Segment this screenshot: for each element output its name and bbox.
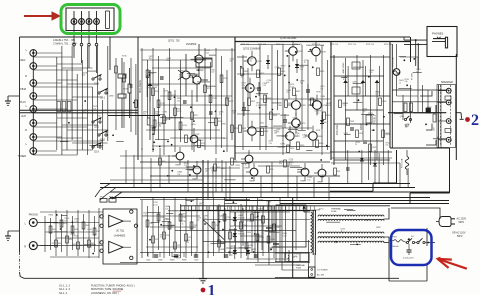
resistor amp 8	[311, 98, 319, 106]
resistor lowermid 17	[262, 216, 270, 223]
svg-text:100: 100	[241, 76, 244, 78]
svg-text:4.7k: 4.7k	[300, 69, 303, 71]
svg-text:Q728: Q728	[274, 67, 279, 69]
svg-text:100: 100	[363, 111, 366, 113]
svg-text:4.7k: 4.7k	[427, 109, 430, 111]
connector strip band	[180, 206, 390, 211]
svg-text:47μ: 47μ	[316, 113, 319, 115]
wire bus y202	[225, 200, 449, 202]
svg-text:R705: R705	[100, 197, 104, 199]
terminal lug 1	[445, 129, 451, 133]
wire amp horizontals	[235, 45, 330, 154]
capacitor amp 2	[306, 84, 310, 98]
resistor amp 14	[261, 128, 269, 136]
resistor tone 3	[163, 116, 171, 124]
resistor lowermid 5	[174, 242, 181, 249]
svg-text:2.2k: 2.2k	[206, 52, 209, 54]
svg-text:MONITOR ( TAPE.: MONITOR ( TAPE.	[91, 288, 112, 291]
switch S1-1	[98, 88, 108, 99]
wire left border dashdot	[19, 252, 21, 272]
svg-text:R66: R66	[86, 225, 89, 227]
wire bus y192	[110, 191, 449, 193]
capacitor tonecontrol 2	[356, 130, 364, 138]
svg-text:10k: 10k	[199, 205, 202, 207]
resistor lowermid 4	[168, 222, 175, 229]
svg-text:PC LFM: PC LFM	[412, 73, 414, 80]
fuse F601	[393, 237, 403, 249]
wire power step dark	[330, 150, 397, 191]
wire jack link 9	[33, 108, 67, 110]
svg-text:R831: R831	[242, 128, 246, 130]
svg-text:R65: R65	[80, 245, 83, 247]
wire speaker bus thick	[388, 112, 446, 114]
svg-text:C93: C93	[166, 235, 169, 237]
switch S2-3	[92, 142, 102, 153]
svg-text:R928: R928	[258, 200, 263, 202]
svg-text:R739 1.5k: R739 1.5k	[384, 44, 392, 46]
svg-text:1k: 1k	[168, 229, 170, 231]
jack input J3	[30, 80, 37, 87]
svg-text:C98: C98	[194, 225, 197, 227]
resistor lowermid 7	[185, 234, 192, 241]
transistor G807	[282, 126, 301, 146]
resistor lowermid 1	[152, 236, 159, 243]
svg-text:D607: D607	[252, 249, 257, 251]
resistor tone 9	[209, 95, 217, 103]
transistor Q709	[288, 95, 307, 116]
svg-text:R: R	[25, 129, 27, 132]
svg-text:4.7k: 4.7k	[219, 114, 222, 116]
wire jack link 14	[33, 140, 102, 142]
resistor amp 11	[239, 125, 247, 133]
svg-text:4.7k: 4.7k	[276, 131, 279, 133]
lamp PL802	[79, 11, 85, 31]
wire speaker dashed rails	[441, 85, 451, 146]
ic outline LA4648	[103, 209, 137, 264]
svg-text:R64: R64	[75, 229, 78, 231]
svg-text:C817: C817	[434, 127, 436, 131]
svg-text:47μ: 47μ	[64, 220, 67, 222]
subboard outline B	[276, 205, 306, 247]
svg-text:R718: R718	[207, 88, 211, 90]
resistor lowermid 11	[223, 214, 231, 221]
svg-text:2.2k: 2.2k	[247, 221, 250, 223]
resistor phono 2	[60, 220, 67, 227]
wire transformer tap wires	[304, 204, 389, 245]
wire midright verticals	[348, 150, 388, 184]
svg-text:R92: R92	[234, 161, 237, 163]
wire bus left jogs	[95, 184, 122, 201]
lamp PL803	[86, 11, 92, 31]
wire right border	[455, 54, 457, 160]
svg-text:C833: C833	[372, 147, 376, 149]
label thermal fuse	[319, 207, 342, 213]
transformer secondary winding 2	[318, 219, 384, 220]
annotation blue box	[391, 230, 432, 265]
svg-text:C665: C665	[395, 73, 400, 75]
switch S1-3	[92, 74, 102, 85]
ground input shield	[5, 96, 20, 105]
capacitor tonecontrol 3	[369, 144, 377, 152]
wire jack link 15	[33, 150, 57, 152]
resistor lowermid 15	[251, 214, 259, 221]
svg-text:2.2k: 2.2k	[263, 85, 266, 87]
svg-text:C911: C911	[227, 217, 231, 219]
wire jack link 4	[33, 69, 82, 71]
wire center diagonal	[204, 220, 225, 240]
wire jack link 5	[33, 82, 62, 84]
svg-text:1: 1	[208, 283, 216, 295]
svg-text:R62: R62	[64, 223, 67, 225]
transistor G806	[297, 163, 309, 183]
svg-text:R892: R892	[376, 227, 381, 229]
wire lamp lead lower 2	[81, 46, 83, 63]
legend text	[59, 284, 135, 295]
svg-text:R822: R822	[260, 73, 264, 75]
wire lamp lead 1	[73, 31, 75, 44]
svg-text:G808: G808	[317, 182, 323, 184]
svg-text:R911: R911	[221, 168, 225, 170]
svg-text:TUNER: TUNER	[18, 155, 27, 158]
legend underline	[113, 290, 122, 292]
svg-text:2SA950F: 2SA950F	[186, 43, 197, 46]
svg-text:0.022: 0.022	[289, 86, 294, 88]
svg-text:C95: C95	[177, 245, 180, 247]
resistor amp 1	[248, 98, 256, 106]
svg-text:100: 100	[230, 61, 233, 63]
svg-text:C917: C917	[265, 219, 269, 221]
resistor amp 15	[297, 142, 305, 150]
ref label cluster 6	[303, 210, 381, 233]
wire lamp lead lower 3	[88, 46, 90, 68]
svg-text:D673: D673	[223, 138, 228, 140]
jack input J2	[30, 63, 37, 70]
wire left border	[19, 37, 21, 252]
diode amp 2	[320, 115, 324, 129]
transistor Q702	[193, 76, 208, 102]
resistor phono 4	[71, 226, 78, 233]
switch S4-2	[417, 238, 425, 243]
capacitor lowermid 4	[254, 255, 258, 257]
svg-text:100: 100	[154, 87, 157, 89]
wire balance area verticals	[116, 58, 155, 135]
svg-text:F601: F601	[393, 237, 397, 239]
resistor lowermid 19	[273, 224, 281, 231]
svg-text:2.2k: 2.2k	[232, 113, 235, 115]
svg-text:R829: R829	[320, 71, 324, 73]
svg-text:4.7k: 4.7k	[160, 237, 163, 239]
svg-text:0.022: 0.022	[289, 161, 294, 163]
svg-text:A MAIN-L 753 ... 360: A MAIN-L 753 ... 360	[53, 39, 76, 42]
resistor lowermid 8	[190, 222, 197, 229]
potentiometer TREBLE wiper	[375, 66, 380, 96]
svg-text:R95: R95	[337, 171, 340, 173]
svg-text:100: 100	[165, 208, 168, 210]
capacitor tonecontrol 0	[339, 100, 347, 108]
wire lamp lead 4	[96, 31, 98, 44]
svg-text:S1-1: S1-1	[100, 97, 106, 99]
svg-text:D966: D966	[221, 123, 226, 125]
svg-text:C832: C832	[359, 133, 363, 135]
svg-text:R827: R827	[296, 91, 300, 93]
terminal speaker 4	[438, 137, 453, 142]
svg-text:1k: 1k	[182, 223, 184, 225]
svg-text:C807: C807	[194, 260, 199, 262]
rectifier diode D607	[246, 245, 256, 259]
wire lamp lead 3	[88, 31, 90, 44]
loudness box	[196, 58, 212, 67]
wire selector dark bus 1	[20, 109, 139, 111]
potentiometer BASS wiper	[361, 66, 366, 96]
wire phono horizontals	[40, 212, 103, 257]
ref label cluster 1	[143, 50, 236, 140]
svg-text:FUSE: FUSE	[331, 211, 337, 213]
svg-text:C919: C919	[276, 227, 280, 229]
svg-text:50Hz: 50Hz	[459, 221, 465, 224]
resistor phono 1	[55, 240, 62, 247]
svg-text:R778: R778	[316, 92, 321, 94]
svg-text:Q922: Q922	[260, 123, 265, 125]
svg-text:100: 100	[205, 171, 208, 173]
transformer secondary winding 5	[318, 241, 384, 243]
switch S1-2	[98, 130, 108, 141]
svg-text:47μ: 47μ	[386, 145, 389, 147]
svg-text:C837: C837	[303, 212, 308, 214]
svg-text:AC 18V: AC 18V	[317, 274, 325, 277]
resistor lowermid 9	[212, 222, 219, 229]
top bus component labels	[241, 44, 392, 46]
jack input J7	[30, 134, 37, 141]
svg-text:R725: R725	[201, 143, 205, 145]
wire jack link 8	[33, 99, 77, 101]
svg-text:100: 100	[343, 105, 346, 107]
terminal speaker 2	[438, 100, 453, 105]
svg-text:FUSE: FUSE	[296, 267, 302, 269]
filter cap C601	[265, 200, 276, 265]
node lamp terminal 1	[73, 43, 76, 46]
svg-text:Q691: Q691	[352, 81, 357, 83]
wire jack link 11	[33, 122, 57, 124]
wire lamp lead 2	[81, 31, 83, 44]
resistor phono 3	[66, 236, 73, 243]
svg-text:220: 220	[294, 256, 297, 258]
svg-text:THERMAL: THERMAL	[331, 207, 342, 210]
svg-text:4.7k: 4.7k	[225, 100, 228, 102]
svg-text:TREBLE: TREBLE	[374, 114, 377, 124]
wire lowermid verticals	[142, 198, 286, 262]
diode amp 1	[295, 59, 299, 73]
rectifier diode D606	[233, 228, 245, 242]
lamp PL801	[71, 11, 77, 31]
capacitor tonecontrol 4	[379, 98, 387, 106]
resistor amp 7	[293, 88, 301, 96]
svg-text:Q705 2SC996F: Q705 2SC996F	[280, 37, 297, 40]
svg-text:R63: R63	[69, 239, 72, 241]
resistor amp 3	[264, 95, 272, 103]
transistor G802	[190, 128, 204, 152]
wire center bus	[202, 160, 204, 278]
svg-text:Q791: Q791	[164, 90, 169, 92]
svg-text:Q825: Q825	[164, 218, 169, 220]
resistor tone 12	[226, 98, 234, 106]
svg-text:10k: 10k	[150, 128, 153, 130]
wire amp verticals	[243, 45, 328, 155]
lamp PL804	[94, 11, 100, 31]
annotation red arrow to power switch	[435, 257, 466, 269]
wire jack link 13	[33, 136, 62, 138]
wire tone horizontals	[140, 50, 235, 146]
node lamp terminal 3	[88, 43, 91, 46]
svg-text:Q845: Q845	[400, 116, 405, 118]
svg-text:2.2k: 2.2k	[269, 143, 272, 145]
resistor tone 6	[179, 122, 187, 130]
wire jack link 10	[33, 112, 97, 114]
capacitor across line	[403, 244, 414, 260]
resistor tone 5	[174, 108, 182, 116]
divider line top	[109, 37, 111, 70]
svg-text:220: 220	[194, 76, 197, 78]
svg-text:R741: R741	[316, 130, 321, 132]
resistor lowrow 2	[231, 158, 238, 165]
svg-text:C849: C849	[278, 105, 283, 107]
svg-text:C805: C805	[146, 260, 151, 262]
svg-text:63/160: 63/160	[271, 227, 277, 229]
wire lowrow vertical drops	[126, 148, 329, 200]
terminal speaker 3	[438, 119, 453, 124]
svg-text:C97: C97	[188, 237, 191, 239]
svg-text:10k: 10k	[197, 219, 200, 221]
svg-text:+BIAS VRMS: +BIAS VRMS	[342, 62, 345, 74]
svg-text:10k: 10k	[149, 58, 152, 60]
svg-text:2.2k: 2.2k	[74, 221, 77, 223]
wire caps row stubs	[148, 252, 196, 257]
switch S4-1 speaker	[404, 116, 411, 128]
svg-text:47μ: 47μ	[203, 218, 206, 220]
svg-text:C855: C855	[191, 124, 196, 126]
capacitor lowermid 1	[174, 255, 178, 257]
transistor Q708	[308, 41, 327, 61]
svg-text:R911: R911	[236, 165, 240, 167]
resistor phono 0	[49, 226, 56, 233]
node lamp terminal 2	[80, 43, 83, 46]
resistor phono 7	[88, 240, 95, 247]
transistor G809	[305, 126, 324, 146]
ref label cluster 8	[395, 69, 431, 128]
transformer secondary winding 4	[318, 237, 384, 238]
wire center bus companions	[198, 160, 240, 200]
switch S2-1	[92, 117, 102, 128]
svg-text:R706: R706	[109, 197, 113, 199]
svg-text:R719: R719	[213, 98, 217, 100]
wire lowermid horizontals	[120, 200, 310, 263]
capacitor C703 pair	[118, 58, 126, 128]
capacitor tone marks	[152, 77, 213, 130]
jack input J4	[30, 93, 37, 100]
svg-text:C916: C916	[260, 237, 264, 239]
svg-text:D984: D984	[320, 96, 325, 98]
svg-text:R830: R830	[326, 115, 330, 117]
svg-text:4.7k: 4.7k	[302, 137, 305, 139]
svg-text:47μ: 47μ	[230, 254, 233, 256]
svg-text:R809: R809	[170, 260, 175, 262]
svg-text:10k: 10k	[177, 100, 180, 102]
svg-text:0.047μ±20%: 0.047μ±20%	[403, 258, 414, 260]
svg-text:R717: R717	[194, 115, 198, 117]
svg-text:R826: R826	[288, 103, 292, 105]
svg-text:4.7k: 4.7k	[241, 85, 244, 87]
wire balance area horizontal	[108, 115, 160, 117]
transistor G804	[246, 163, 258, 183]
wire bus y187	[100, 187, 415, 189]
svg-text:PHONO: PHONO	[29, 214, 38, 217]
svg-text:R712: R712	[161, 103, 165, 105]
label AC 220V	[457, 218, 467, 225]
resistor tone 8	[204, 85, 212, 93]
jack phono L	[25, 219, 38, 227]
svg-text:D684: D684	[315, 210, 320, 212]
resistor lowermid 0	[146, 220, 153, 227]
svg-text:PLAY: PLAY	[20, 101, 26, 104]
opamp channel B	[100, 241, 133, 260]
resistor tone 1	[152, 88, 160, 96]
wire blue box entry	[389, 240, 394, 242]
speaker terminal labels	[438, 101, 440, 138]
wire power horizontals	[226, 212, 315, 278]
svg-text:47μ: 47μ	[97, 115, 100, 117]
wire right step upper	[390, 42, 450, 194]
capacitor tonecontrol 5	[382, 130, 390, 138]
resistor tone 11	[220, 75, 228, 83]
svg-text:100: 100	[195, 136, 198, 138]
wire selector matrix horizontals	[57, 64, 108, 150]
svg-text:R832: R832	[290, 148, 294, 150]
annotation green box	[61, 5, 120, 34]
resistor lowermid 12	[229, 232, 237, 239]
annotation red dot 1	[201, 288, 206, 293]
ref label cluster 3	[343, 70, 390, 147]
diode marks midright	[346, 158, 377, 170]
node lamp terminal 4	[95, 43, 98, 46]
svg-text:R820: R820	[244, 71, 248, 73]
svg-text:220: 220	[158, 125, 161, 127]
ref label cluster 7	[177, 159, 325, 181]
svg-text:2.2k: 2.2k	[295, 135, 298, 137]
svg-text:0.022: 0.022	[176, 257, 181, 259]
transistor Q706	[242, 78, 261, 98]
svg-text:D853: D853	[72, 244, 77, 246]
svg-text:LA4648DS: LA4648DS	[114, 235, 126, 238]
svg-text:1k: 1k	[304, 62, 306, 64]
svg-text:D990: D990	[280, 143, 285, 145]
wire lowrow horiz links	[110, 166, 300, 180]
wire bus y197	[110, 197, 430, 199]
resistor phono 5	[77, 242, 84, 249]
resistor tone 7	[191, 112, 199, 120]
capacitor lowermid 3	[224, 255, 228, 257]
resistor lowrow 5	[334, 168, 341, 175]
svg-text:R716: R716	[183, 125, 187, 127]
svg-text:1k: 1k	[405, 126, 407, 128]
svg-text:TO TUNER: TO TUNER	[317, 269, 328, 271]
svg-text:PHONO: PHONO	[81, 18, 83, 25]
svg-text:G802: G802	[244, 168, 250, 170]
wire jack link 12	[33, 126, 87, 128]
svg-text:D741: D741	[87, 229, 92, 231]
svg-text:C90: C90	[150, 223, 153, 225]
wire jack link 1	[33, 52, 62, 54]
svg-text:0.022: 0.022	[210, 72, 215, 74]
jack input J1	[30, 50, 37, 57]
